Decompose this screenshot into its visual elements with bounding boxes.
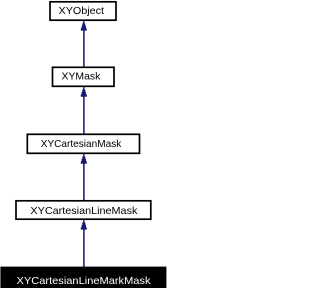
svg-text:XYObject: XYObject bbox=[59, 5, 105, 17]
svg-text:XYMask: XYMask bbox=[62, 71, 102, 83]
arrowhead at XYObject bbox=[81, 20, 87, 30]
inheritance arrow XYCartesianLineMask to XYCartesianMask bbox=[81, 154, 87, 201]
inheritance arrow XYCartesianMask to XYMask bbox=[81, 87, 87, 135]
arrow shaft XYCartesianLineMask to XYCartesianMask bbox=[83, 163, 85, 201]
class node XYMask bbox=[53, 67, 115, 86]
svg-text:XYCartesianMask: XYCartesianMask bbox=[41, 138, 122, 150]
node box XYObject bbox=[50, 2, 116, 20]
node box XYCartesianMask bbox=[27, 134, 139, 153]
node box XYCartesianLineMarkMask bbox=[0, 267, 166, 288]
arrowhead at XYMask bbox=[81, 87, 87, 97]
arrowhead at XYCartesianLineMask bbox=[81, 219, 87, 229]
class node XYCartesianLineMarkMask (current class, filled black) bbox=[0, 267, 166, 288]
node box XYMask bbox=[53, 67, 115, 86]
class node XYCartesianLineMask bbox=[16, 201, 151, 219]
arrow shaft XYMask to XYObject bbox=[83, 30, 85, 68]
svg-text:XYCartesianLineMask: XYCartesianLineMask bbox=[30, 205, 138, 217]
inheritance arrow XYMask to XYObject bbox=[81, 20, 87, 67]
svg-text:XYCartesianLineMarkMask: XYCartesianLineMarkMask bbox=[17, 275, 152, 287]
arrow shaft XYCartesianLineMarkMask to XYCartesianLineMask bbox=[83, 229, 85, 267]
arrowhead at XYCartesianMask bbox=[81, 154, 87, 164]
arrow shaft XYCartesianMask to XYMask bbox=[83, 96, 85, 135]
inheritance arrow XYCartesianLineMarkMask to XYCartesianLineMask bbox=[81, 219, 87, 267]
class node XYCartesianMask bbox=[27, 134, 139, 153]
class node XYObject bbox=[50, 2, 116, 20]
node box XYCartesianLineMask bbox=[16, 201, 151, 219]
